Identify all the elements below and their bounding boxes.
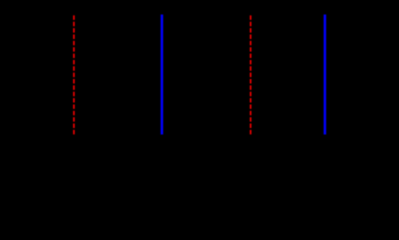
red dashed vline 2 [250,15,252,134]
chart canvas [0,0,399,168]
blue solid vline 1 [161,15,163,135]
blue solid vline 2 [324,15,326,135]
red dashed vline 1 [73,15,75,134]
